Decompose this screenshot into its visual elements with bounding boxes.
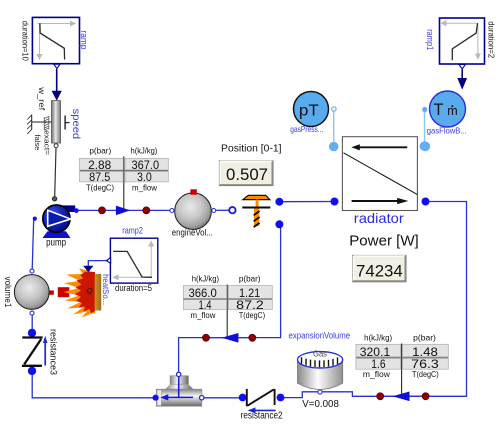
svg-text:radiator: radiator [354, 210, 404, 226]
svg-text:pT: pT [299, 103, 319, 120]
svg-text:1.4: 1.4 [199, 298, 212, 312]
svg-text:resistance2: resistance2 [241, 411, 283, 422]
svg-text:p(bar): p(bar) [89, 147, 111, 156]
svg-text:T(degC): T(degC) [412, 370, 439, 379]
svg-text:false: false [33, 134, 40, 150]
svg-text:m_flow: m_flow [132, 183, 157, 192]
svg-text:engineVol...: engineVol... [172, 228, 213, 238]
svg-text:Position [0-1]: Position [0-1] [221, 143, 282, 155]
svg-text:ramp1: ramp1 [424, 29, 435, 50]
svg-text:volume1: volume1 [3, 277, 13, 308]
svg-text:resistance3: resistance3 [48, 329, 58, 375]
svg-text:74234: 74234 [356, 262, 403, 281]
svg-text:ramp2: ramp2 [122, 226, 143, 237]
svg-text:T(degC): T(degC) [86, 183, 114, 192]
svg-text:3.0: 3.0 [137, 170, 152, 184]
svg-text:Gas: Gas [313, 350, 327, 359]
svg-text:Q: Q [87, 286, 93, 295]
svg-text:0.507: 0.507 [226, 165, 268, 184]
svg-text:p(bar): p(bar) [239, 274, 261, 283]
svg-text:gasPress...: gasPress... [290, 124, 323, 134]
svg-text:T(degC): T(degC) [239, 311, 266, 320]
svg-text:gasFlowB...: gasFlowB... [427, 126, 467, 136]
svg-text:h(kJ/kg): h(kJ/kg) [364, 334, 392, 343]
svg-text:h(kJ/kg): h(kJ/kg) [131, 147, 158, 156]
svg-text:87.2: 87.2 [236, 298, 264, 312]
svg-text:duration=10: duration=10 [21, 21, 31, 61]
svg-text:pump: pump [46, 237, 66, 248]
svg-text:Power [W]: Power [W] [349, 234, 419, 250]
svg-text:m_flow: m_flow [191, 311, 216, 320]
svg-text:expansionVolume: expansionVolume [289, 331, 351, 341]
svg-text:exact=: exact= [43, 130, 50, 155]
svg-text:m_flow: m_flow [363, 370, 390, 379]
svg-text:V=0.008: V=0.008 [302, 399, 339, 410]
svg-text:w_ref: w_ref [37, 86, 46, 111]
svg-text:speed: speed [70, 109, 82, 140]
svg-text:heatSo...: heatSo... [101, 274, 110, 305]
svg-text:87.5: 87.5 [89, 170, 110, 184]
svg-text:p(bar): p(bar) [413, 334, 436, 343]
svg-text:ramp: ramp [78, 31, 89, 50]
svg-text:duration=5: duration=5 [115, 283, 152, 293]
svg-text:h(kJ/kg): h(kJ/kg) [192, 274, 220, 283]
svg-text:T: T [434, 101, 444, 119]
svg-text:duration=2: duration=2 [487, 21, 497, 58]
